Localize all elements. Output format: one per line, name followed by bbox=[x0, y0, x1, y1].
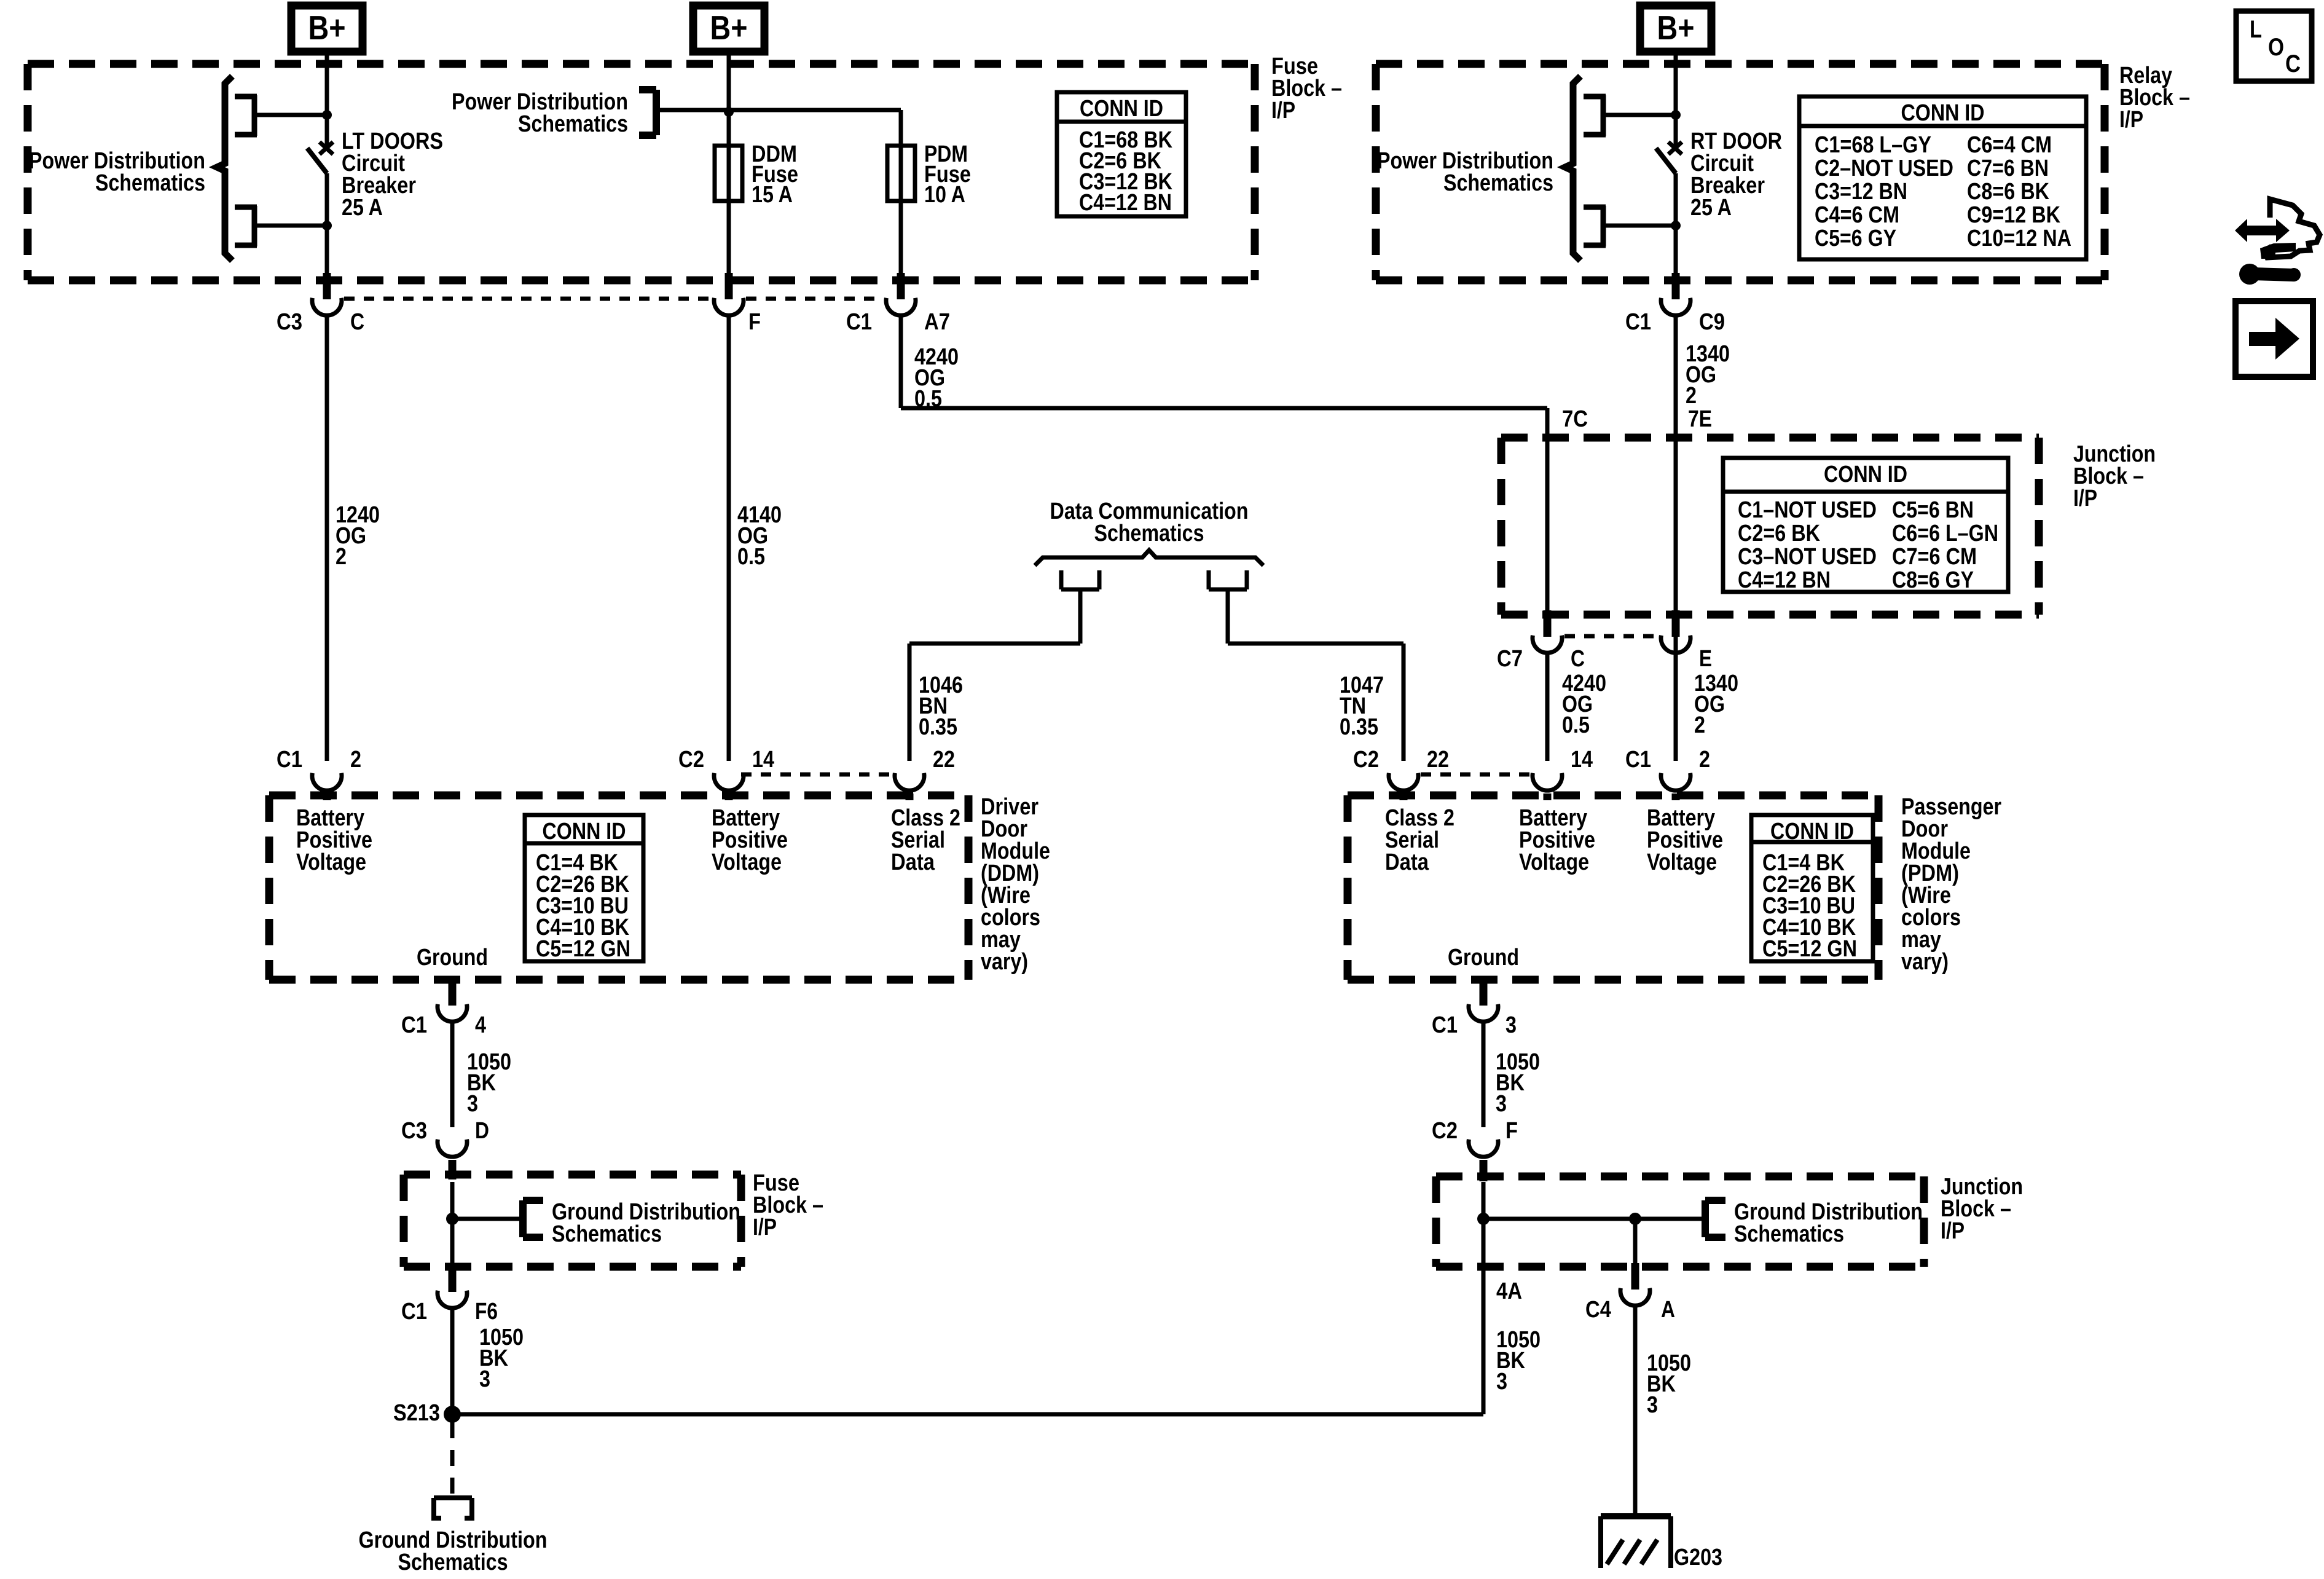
svg-text:3: 3 bbox=[1647, 1392, 1658, 1418]
svg-text:C5=12 GN: C5=12 GN bbox=[1762, 936, 1857, 962]
svg-text:15 A: 15 A bbox=[752, 182, 793, 208]
svg-text:C7=6 BN: C7=6 BN bbox=[1967, 156, 2049, 181]
svg-text:CONN ID: CONN ID bbox=[1770, 819, 1854, 845]
svg-text:E: E bbox=[1699, 646, 1712, 672]
svg-text:2: 2 bbox=[336, 544, 347, 570]
svg-text:C1: C1 bbox=[1625, 747, 1651, 773]
svg-text:Schematics: Schematics bbox=[1734, 1221, 1844, 1247]
svg-text:I/P: I/P bbox=[753, 1215, 777, 1240]
svg-text:2: 2 bbox=[1699, 747, 1710, 773]
svg-text:C2: C2 bbox=[678, 747, 704, 773]
svg-text:C1: C1 bbox=[401, 1299, 427, 1325]
svg-text:0.5: 0.5 bbox=[737, 544, 765, 570]
svg-text:Voltage: Voltage bbox=[1647, 849, 1717, 875]
svg-text:F: F bbox=[748, 309, 761, 335]
svg-text:Schematics: Schematics bbox=[1443, 170, 1553, 196]
svg-text:C9: C9 bbox=[1699, 309, 1725, 335]
svg-text:F: F bbox=[1505, 1118, 1518, 1144]
svg-text:0.35: 0.35 bbox=[1340, 714, 1378, 740]
svg-text:B+: B+ bbox=[710, 9, 748, 47]
svg-text:F6: F6 bbox=[475, 1299, 498, 1325]
svg-text:C8=6 GY: C8=6 GY bbox=[1892, 567, 1974, 593]
svg-text:C3: C3 bbox=[401, 1118, 427, 1144]
svg-text:Ground: Ground bbox=[417, 945, 488, 971]
svg-text:C3–NOT USED: C3–NOT USED bbox=[1738, 544, 1877, 570]
svg-text:C2=6 BK: C2=6 BK bbox=[1738, 521, 1820, 546]
svg-text:Voltage: Voltage bbox=[296, 849, 366, 875]
svg-text:C3=12 BN: C3=12 BN bbox=[1815, 179, 1907, 205]
svg-text:S213: S213 bbox=[393, 1400, 440, 1426]
svg-text:B+: B+ bbox=[1657, 9, 1695, 47]
svg-text:4A: 4A bbox=[1496, 1278, 1522, 1304]
svg-text:Data: Data bbox=[891, 849, 935, 875]
svg-text:C: C bbox=[350, 309, 364, 335]
svg-text:G203: G203 bbox=[1674, 1545, 1722, 1570]
svg-text:C10=12 NA: C10=12 NA bbox=[1967, 226, 2071, 251]
svg-text:Schematics: Schematics bbox=[552, 1221, 662, 1247]
svg-text:O: O bbox=[2268, 34, 2284, 61]
svg-text:C2: C2 bbox=[1353, 747, 1379, 773]
svg-text:C6=4 CM: C6=4 CM bbox=[1967, 132, 2052, 158]
svg-text:C1: C1 bbox=[1432, 1012, 1458, 1038]
svg-text:2: 2 bbox=[1686, 383, 1697, 409]
svg-text:25 A: 25 A bbox=[1690, 195, 1732, 221]
svg-text:B+: B+ bbox=[308, 9, 346, 47]
svg-text:3: 3 bbox=[479, 1366, 490, 1392]
svg-text:C4=12 BN: C4=12 BN bbox=[1079, 190, 1172, 216]
svg-text:3: 3 bbox=[1496, 1091, 1507, 1117]
svg-text:Voltage: Voltage bbox=[712, 849, 782, 875]
svg-text:C: C bbox=[2285, 50, 2301, 77]
svg-text:Schematics: Schematics bbox=[1094, 521, 1204, 546]
svg-text:22: 22 bbox=[933, 747, 955, 773]
svg-text:vary): vary) bbox=[1901, 949, 1949, 975]
svg-text:4: 4 bbox=[475, 1012, 486, 1038]
svg-text:Schematics: Schematics bbox=[518, 111, 628, 137]
svg-text:vary): vary) bbox=[981, 949, 1028, 975]
svg-text:I/P: I/P bbox=[1941, 1218, 1965, 1244]
svg-text:A7: A7 bbox=[924, 309, 950, 335]
svg-text:C5=12 GN: C5=12 GN bbox=[536, 936, 630, 962]
svg-text:I/P: I/P bbox=[2119, 107, 2143, 133]
svg-text:C6=6 L–GN: C6=6 L–GN bbox=[1892, 521, 1998, 546]
svg-text:Voltage: Voltage bbox=[1519, 849, 1589, 875]
svg-text:0.5: 0.5 bbox=[914, 386, 942, 412]
svg-text:CONN ID: CONN ID bbox=[543, 819, 626, 845]
svg-text:CONN ID: CONN ID bbox=[1901, 100, 1985, 126]
svg-text:C2: C2 bbox=[1432, 1118, 1458, 1144]
svg-text:C4: C4 bbox=[1585, 1297, 1611, 1323]
svg-text:CONN ID: CONN ID bbox=[1080, 96, 1163, 122]
svg-text:14: 14 bbox=[752, 747, 774, 773]
svg-text:2: 2 bbox=[350, 747, 361, 773]
svg-text:C4=12 BN: C4=12 BN bbox=[1738, 567, 1831, 593]
svg-text:22: 22 bbox=[1427, 747, 1449, 773]
svg-text:D: D bbox=[475, 1118, 489, 1144]
svg-text:A: A bbox=[1661, 1297, 1675, 1323]
svg-text:C1: C1 bbox=[1625, 309, 1651, 335]
svg-text:C: C bbox=[1571, 646, 1585, 672]
svg-text:Data: Data bbox=[1385, 849, 1429, 875]
svg-text:I/P: I/P bbox=[2073, 486, 2097, 511]
svg-text:C1–NOT USED: C1–NOT USED bbox=[1738, 497, 1877, 523]
svg-text:C7: C7 bbox=[1497, 646, 1523, 672]
svg-text:3: 3 bbox=[1496, 1369, 1507, 1395]
svg-text:7C: 7C bbox=[1562, 406, 1588, 432]
svg-text:Schematics: Schematics bbox=[95, 170, 205, 196]
svg-text:CONN ID: CONN ID bbox=[1824, 462, 1907, 487]
svg-text:C2–NOT USED: C2–NOT USED bbox=[1815, 156, 1953, 181]
svg-text:C3: C3 bbox=[277, 309, 302, 335]
svg-text:C9=12 BK: C9=12 BK bbox=[1967, 202, 2060, 228]
svg-text:3: 3 bbox=[467, 1091, 478, 1117]
svg-text:C5=6 BN: C5=6 BN bbox=[1892, 497, 1974, 523]
svg-text:C1=68 L–GY: C1=68 L–GY bbox=[1815, 132, 1931, 158]
svg-text:0.35: 0.35 bbox=[919, 714, 957, 740]
svg-text:C4=6 CM: C4=6 CM bbox=[1815, 202, 1899, 228]
svg-text:10 A: 10 A bbox=[924, 182, 965, 208]
svg-text:Ground: Ground bbox=[1448, 945, 1519, 971]
svg-text:I/P: I/P bbox=[1271, 98, 1295, 124]
svg-text:7E: 7E bbox=[1688, 406, 1712, 432]
svg-text:25 A: 25 A bbox=[342, 195, 383, 221]
svg-text:C1: C1 bbox=[277, 747, 302, 773]
svg-text:14: 14 bbox=[1571, 747, 1593, 773]
svg-text:C7=6 CM: C7=6 CM bbox=[1892, 544, 1977, 570]
svg-text:C1: C1 bbox=[846, 309, 872, 335]
svg-text:0.5: 0.5 bbox=[1562, 712, 1590, 738]
svg-text:3: 3 bbox=[1505, 1012, 1517, 1038]
svg-text:L: L bbox=[2250, 16, 2262, 43]
svg-text:2: 2 bbox=[1694, 712, 1705, 738]
svg-text:Schematics: Schematics bbox=[398, 1549, 508, 1575]
svg-text:C5=6 GY: C5=6 GY bbox=[1815, 226, 1896, 251]
svg-text:C1: C1 bbox=[401, 1012, 427, 1038]
svg-text:C8=6 BK: C8=6 BK bbox=[1967, 179, 2049, 205]
